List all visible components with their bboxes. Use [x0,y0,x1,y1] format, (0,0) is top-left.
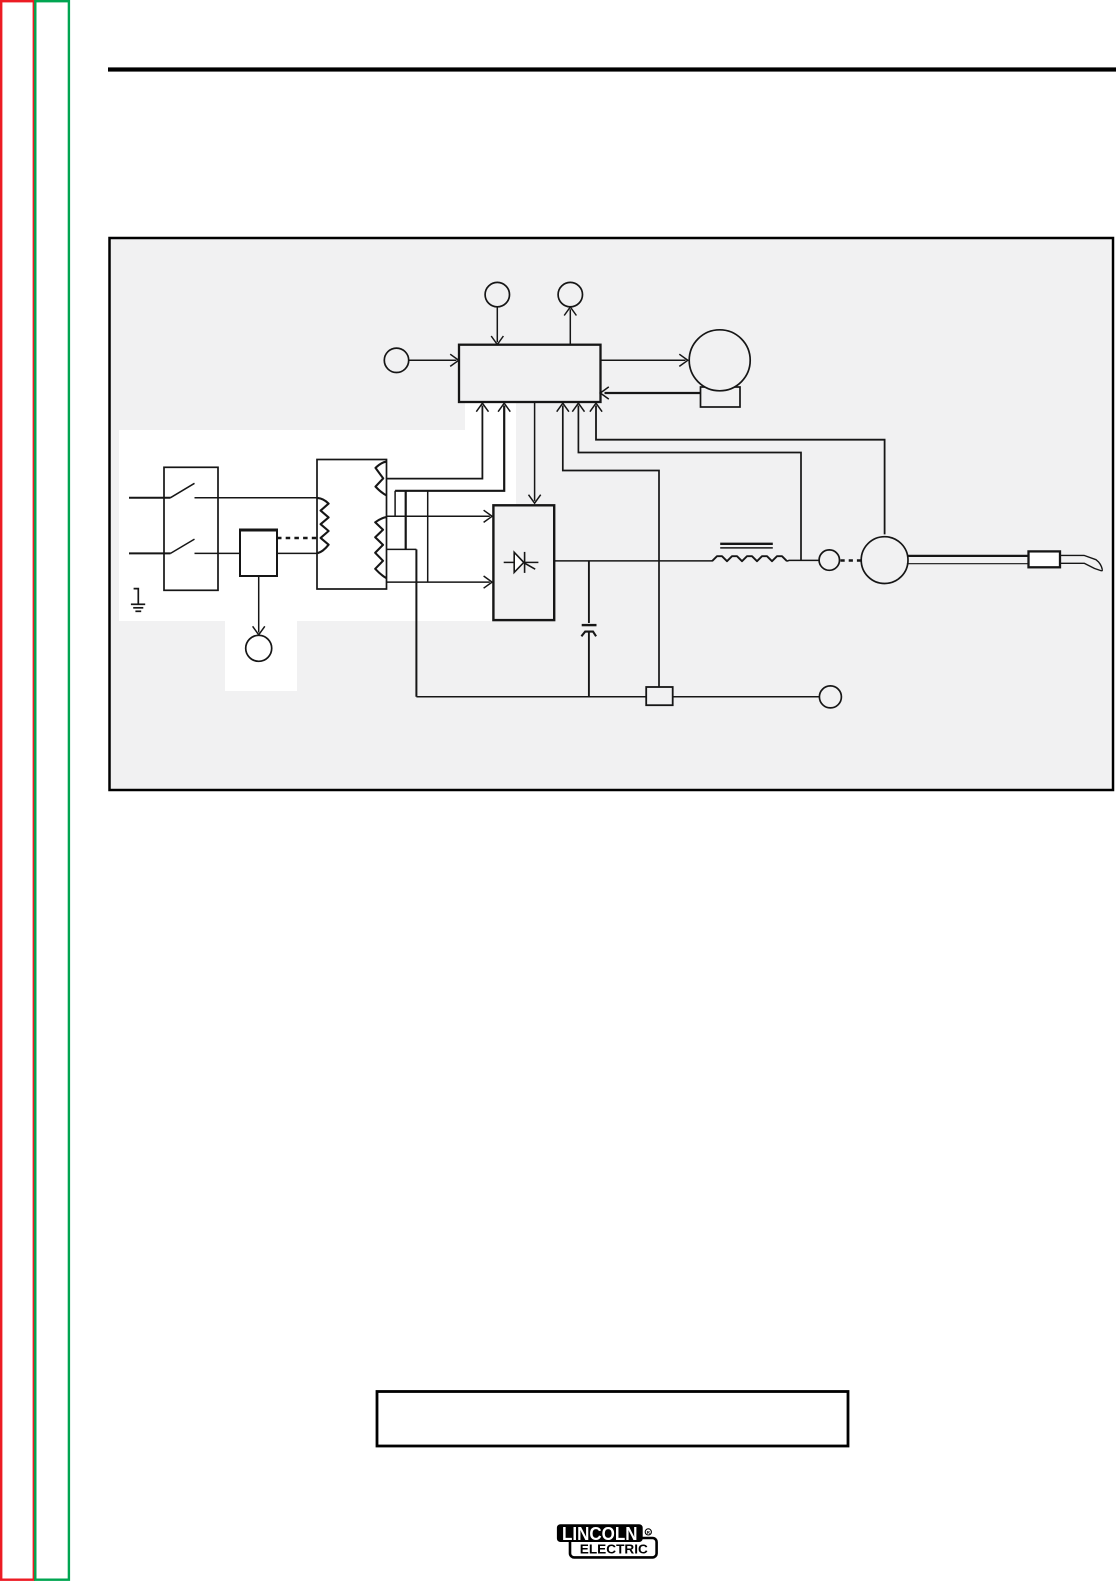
arrowhead into rectifier bottom input [484,576,493,588]
choke core bar thick [720,543,773,545]
header rule [108,67,1116,71]
work stud circle [819,686,841,708]
diagram panel background [109,238,1111,789]
SCR rectifier box [493,505,554,620]
arrowhead into rectifier top input [484,510,493,522]
switch blade S1b [171,539,195,553]
wire to fan motor [258,576,260,633]
capacitor wire to bottom rail [588,632,590,697]
transformer auxiliary winding [376,462,387,496]
sense tap drop 1 [394,491,396,517]
diagram panel border [110,238,1114,790]
center tap down wire to shunt rail [415,549,417,696]
wire knob 3 to control pcb [409,359,457,361]
wire secondary tap to rectifier top input [387,515,490,517]
sense tap drop 3 [427,491,429,582]
rail shunt to work stud [672,696,819,698]
transformer secondary winding [375,517,386,578]
transformer T1 core box [317,460,387,590]
current feedback wire from shunt [563,406,659,688]
input switch box S1 [164,467,218,590]
SCR symbol [504,552,539,573]
arrowhead into wire drive motor [679,354,688,366]
arrowhead into control pcb left [450,354,459,366]
red sidebar band [1,1,34,1580]
input line L2 [129,552,171,554]
thermostat block [240,530,277,576]
choke core bar thin [720,547,773,549]
wire control pcb to wire drive motor [601,359,686,361]
input line L1 [129,497,171,499]
green sidebar band [35,1,69,1580]
wire secondary center tap [387,548,417,550]
arrowhead into meter 2 [564,307,576,316]
arrowhead current feedback into control pcb [557,403,569,412]
gun body block [1029,551,1061,567]
white patch left (around input switch and transformer) [119,430,465,621]
wire drive motor circle [689,330,750,391]
meter circle 2 [558,282,582,306]
arrowhead into control pcb top [491,336,503,345]
capacitor lower plate [581,632,596,637]
shunt block [646,687,673,705]
bottom rail to shunt [416,696,646,698]
wire sense bus to control pcb input 2 [395,406,504,491]
gate drive wire from control pcb to rectifier [534,402,536,501]
logo upper plate LINCOLN [557,1524,643,1542]
arrowhead into control pcb input 1 [476,403,488,412]
dashed mechanical link to transformer [277,537,317,539]
white patch around fan motor [225,621,297,691]
thermostat block top edge [239,529,278,532]
Lincoln Electric logo [557,1523,657,1557]
bottom note rectangle [377,1392,848,1447]
ground symbol [131,588,145,612]
wire switch to thermostat block [195,552,241,554]
fan motor circle [246,635,272,661]
arrowhead into control pcb input 2 [498,403,510,412]
output wire choke to output stud [787,559,819,562]
tach base rectangle [701,387,741,407]
svg-text:ELECTRIC: ELECTRIC [580,1543,648,1557]
gun cable top line [908,555,1029,557]
wire control pcb to meter 2 [569,309,571,344]
arrowhead into fan motor [253,626,265,635]
gun nozzle curve [1060,555,1102,571]
wire secondary tap to rectifier bottom input [387,581,490,583]
voltage feedback wire from output [578,406,801,561]
wire aux winding to control pcb input 1 [387,406,483,479]
output stud circle [819,550,839,570]
arrowhead spool feedback into control pcb [590,403,602,412]
logo lower plate ELECTRIC [570,1538,657,1557]
switch blade S1a [171,483,195,497]
potentiometer knob 1 [485,282,509,306]
arrowhead voltage feedback into control pcb [572,403,584,412]
output wire rectifier to choke [554,560,712,562]
registered mark [645,1529,651,1535]
control pcb box [459,345,601,402]
output choke coil [712,556,787,561]
wire thermostat to transformer primary bottom [277,552,317,554]
capacitor top plate [582,624,597,626]
svg-text:LINCOLN: LINCOLN [562,1523,638,1544]
arrowhead into control pcb right [600,387,609,399]
white patch under control box (left of rectifier) [465,403,516,621]
capacitor wire from output bus [588,561,590,623]
arrowhead into rectifier gate [529,495,541,504]
wire reel circle [861,537,908,584]
transformer primary winding [318,498,329,553]
sense tap drop 2 [405,491,407,550]
wire knob 1 to control pcb [496,307,498,342]
feedback wire to spool drive [596,406,885,535]
potentiometer knob 3 [384,348,408,372]
wire switch to transformer primary top [195,497,318,499]
dashed link output stud to wire reel [841,559,861,561]
tach feedback wire from motor to control pcb [605,392,701,394]
gun cable bottom line [907,563,1029,565]
